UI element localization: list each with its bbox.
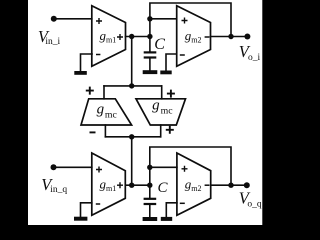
wire feedback loop gm2_q xyxy=(150,147,231,185)
label + gm1_i input xyxy=(96,18,102,24)
svg-text:mc: mc xyxy=(161,106,174,117)
svg-text:g: g xyxy=(97,101,105,117)
node gm2_i output xyxy=(228,34,233,39)
label - gm2_q input xyxy=(180,202,185,204)
node gm2_q + input xyxy=(147,165,152,170)
wire to gm2_q + input xyxy=(150,166,177,168)
svg-text:m1: m1 xyxy=(106,36,116,45)
wire stub top-right gmc xyxy=(161,86,163,99)
wire gmc bottom rail xyxy=(105,136,160,138)
capacitor C (Q path) xyxy=(149,185,151,198)
wire center I node to gmc top rail xyxy=(131,37,133,86)
wire to gm2_i + input xyxy=(150,18,177,20)
op-amp gm2 (Q path) xyxy=(177,153,211,215)
node Q cap junction xyxy=(147,183,152,188)
svg-text:mc: mc xyxy=(105,110,118,121)
capacitor C (I path) xyxy=(149,37,151,52)
svg-text:g: g xyxy=(152,97,160,113)
wire gm2_i output to Vo_i xyxy=(211,36,248,38)
label - gm2_i output xyxy=(205,36,210,38)
svg-text:m2: m2 xyxy=(191,184,201,193)
label - gm1_i input xyxy=(96,54,100,56)
label + gm2_i input xyxy=(182,18,188,24)
label + gm1_q input xyxy=(96,167,102,173)
wire gmc top rail xyxy=(104,85,162,87)
wire stub bottom-right gmc xyxy=(160,125,162,137)
node input terminal I xyxy=(51,16,57,22)
transconductor gmc left (up) xyxy=(81,99,132,125)
transconductor gmc right (down) xyxy=(136,99,186,125)
ground (gm1_q) xyxy=(74,217,87,221)
ground (C_q) xyxy=(143,217,158,221)
label + gm1_i output xyxy=(117,34,123,40)
label - gm2_q output xyxy=(205,184,210,186)
label + gm2_q input xyxy=(182,166,188,172)
svg-text:C: C xyxy=(154,36,165,53)
wire gm2q - input to ground xyxy=(166,203,177,217)
svg-text:m1: m1 xyxy=(106,184,116,193)
svg-text:o_q: o_q xyxy=(247,200,262,210)
node gmc top xyxy=(129,83,134,88)
wire gm2_i - input to ground xyxy=(166,54,177,71)
op-amp gm1 (Q path) xyxy=(92,153,126,215)
op-amp gm2 (I path) xyxy=(177,6,211,67)
ground (C_i) xyxy=(143,70,158,74)
wire Vin_i to gm1 + input xyxy=(54,18,92,20)
wire stub bottom-left gmc xyxy=(104,125,106,137)
label + gm1_q output xyxy=(117,182,123,188)
label - gm2_i input xyxy=(180,54,185,56)
left letterbox bar xyxy=(0,0,28,225)
wire gm1q output to node xyxy=(125,184,150,186)
node Vo_q terminal xyxy=(244,182,250,188)
wire stub top-left gmc xyxy=(103,86,105,99)
ground (gm2_q) xyxy=(161,217,172,221)
wire gm1q - input to ground xyxy=(81,203,92,217)
label + gmc top-right xyxy=(167,90,175,98)
node gmc bottom xyxy=(129,134,134,139)
wire gm2q output to Vo_q xyxy=(211,184,247,186)
label - gmc bottom-left xyxy=(90,131,96,133)
node I integrator xyxy=(129,34,134,39)
label + gmc top-left xyxy=(86,87,94,95)
node input terminal Q xyxy=(51,164,57,170)
ground (gm1_i) xyxy=(74,71,87,75)
svg-text:in_q: in_q xyxy=(50,185,67,195)
node Q integrator xyxy=(129,183,134,188)
right letterbox bar xyxy=(262,0,300,225)
node Vo_i terminal xyxy=(244,34,250,40)
svg-text:in_i: in_i xyxy=(45,37,60,47)
wire center gmc to Q node xyxy=(131,137,133,185)
node I cap junction xyxy=(147,34,152,39)
svg-text:C: C xyxy=(158,180,169,196)
op-amp gm1 (I path) xyxy=(92,6,126,67)
svg-text:o_i: o_i xyxy=(248,53,261,63)
ground (gm2_i) xyxy=(160,71,171,75)
node gm2_i + input xyxy=(147,16,152,21)
wire Vin_q to gm1q + input xyxy=(54,166,92,168)
label + gmc bottom-right xyxy=(166,126,174,134)
wire gm1 - input to ground xyxy=(81,54,93,72)
svg-text:m2: m2 xyxy=(191,36,201,45)
label - gm1_q input xyxy=(96,203,100,205)
wire feedback loop gm2_i xyxy=(150,3,231,37)
node gm2_q output xyxy=(228,183,233,188)
wire gm1 output to node xyxy=(126,36,150,38)
